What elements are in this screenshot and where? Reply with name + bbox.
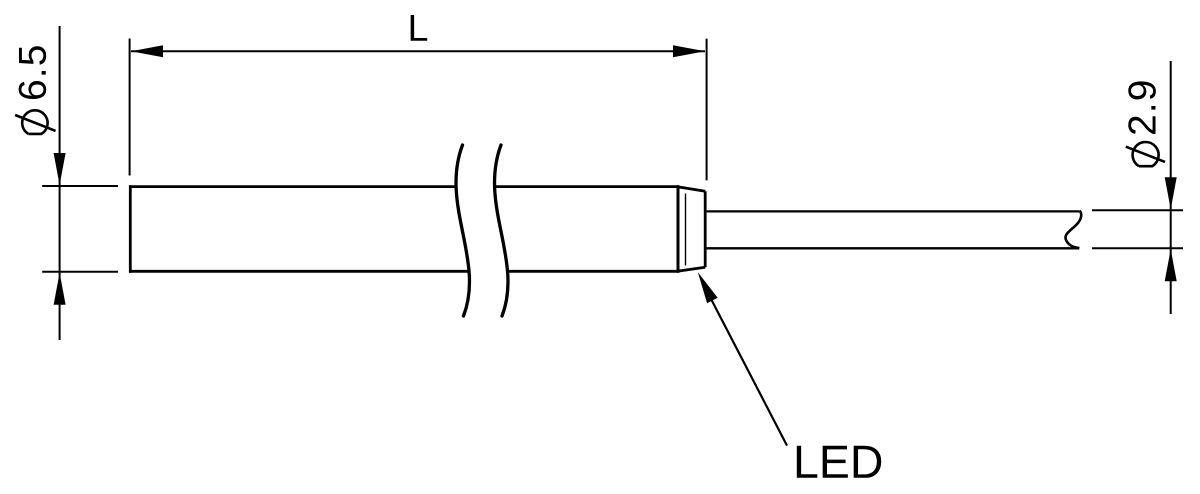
cable top edge <box>707 210 1080 212</box>
diameter 2.9 tick bottom <box>1092 247 1183 249</box>
diameter 2.9 arrowhead up <box>1165 249 1177 281</box>
diameter symbol left slash <box>15 115 56 131</box>
dimension L extension line right <box>706 39 708 181</box>
diameter 6.5 arrowhead down <box>54 153 66 185</box>
LED leader arrowhead <box>698 272 718 303</box>
break wavy line right <box>495 145 508 316</box>
label L <box>411 15 428 41</box>
sensor body top edge left segment <box>129 185 456 188</box>
dimension L arrowhead right <box>673 45 705 57</box>
sensor body bottom edge left segment <box>129 270 469 273</box>
body right edge <box>677 185 680 273</box>
label 6.5 <box>19 46 47 99</box>
cable bottom edge <box>707 247 1079 249</box>
dimension L arrowhead left <box>131 45 163 57</box>
end cap top chamfer <box>679 187 705 191</box>
sensor body top edge right segment <box>494 185 679 188</box>
diameter 6.5 tick bottom <box>42 271 118 273</box>
break wavy line left <box>456 145 469 316</box>
sensor body bottom edge right segment <box>508 270 679 273</box>
diameter 2.9 tick top <box>1092 209 1183 211</box>
LED ring line <box>685 194 687 266</box>
diameter 2.9 dimension line <box>1170 61 1172 314</box>
dimension L line <box>131 50 705 52</box>
sensor body left end face <box>129 185 132 273</box>
diameter 6.5 arrowhead up <box>54 273 66 305</box>
diameter 6.5 dimension line <box>59 26 61 340</box>
dimension L extension line left <box>129 39 131 176</box>
label LED <box>797 446 881 478</box>
end cap bottom chamfer <box>679 267 705 271</box>
cable break curve <box>1065 211 1081 249</box>
diameter symbol right slash <box>1126 147 1165 162</box>
LED leader line <box>710 297 787 446</box>
diameter symbol left circle <box>22 110 47 134</box>
diameter 2.9 arrowhead down <box>1165 177 1177 209</box>
label 2.9 <box>1128 81 1156 134</box>
diameter symbol right circle <box>1133 142 1159 166</box>
end cap right face <box>704 191 707 267</box>
diameter 6.5 tick top <box>42 185 118 187</box>
